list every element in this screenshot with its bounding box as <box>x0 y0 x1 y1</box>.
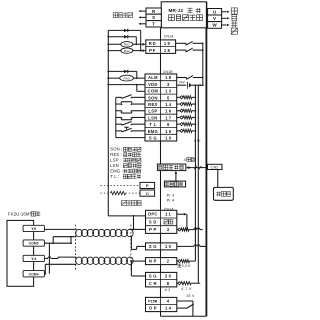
svg-text:COM: COM <box>148 89 159 94</box>
svg-text:9: 9 <box>167 122 171 127</box>
svg-text:PF: PF <box>149 48 156 53</box>
svg-text:LSP: LSP <box>148 109 157 114</box>
svg-text:20: 20 <box>165 274 172 279</box>
svg-text:RES :: RES : <box>110 152 122 157</box>
svg-text:N P: N P <box>149 259 157 264</box>
svg-text:2: 2 <box>167 259 171 264</box>
svg-text:13: 13 <box>165 89 172 94</box>
svg-text:P15R: P15R <box>148 300 158 304</box>
svg-text:18: 18 <box>164 48 171 53</box>
svg-text:# 2: # 2 <box>165 288 171 292</box>
svg-text:SON: SON <box>148 95 158 100</box>
svg-text:5: 5 <box>167 95 171 100</box>
svg-text:Y0: Y0 <box>31 226 37 231</box>
svg-text:18: 18 <box>165 75 172 80</box>
svg-text:T: T <box>152 22 155 27</box>
svg-text:RA3: RA3 <box>124 76 130 80</box>
svg-text:14: 14 <box>165 306 172 311</box>
svg-text:SON :: SON : <box>110 147 122 152</box>
svg-text:Pr 4: Pr 4 <box>167 197 176 202</box>
svg-text:RA2: RA2 <box>124 49 130 53</box>
svg-text:LSP :: LSP : <box>110 158 121 163</box>
svg-text:EMG :: EMG : <box>110 169 123 174</box>
svg-text:11: 11 <box>165 212 172 217</box>
svg-text:S G: S G <box>149 244 157 249</box>
svg-text:OPC: OPC <box>148 212 158 217</box>
svg-text:4: 4 <box>184 158 186 162</box>
svg-text:3: 3 <box>167 227 171 232</box>
svg-text:C: C <box>146 191 149 196</box>
svg-text:14: 14 <box>165 102 172 107</box>
svg-text:LSN :: LSN : <box>110 163 121 168</box>
svg-text:FX2U-16MT: FX2U-16MT <box>8 212 33 217</box>
svg-text:LSN: LSN <box>148 115 157 120</box>
svg-text:V: V <box>213 16 216 21</box>
svg-text:U: U <box>213 9 216 14</box>
svg-text:10: 10 <box>165 136 172 141</box>
svg-text:COM0: COM0 <box>29 242 39 246</box>
svg-text:O P: O P <box>149 306 157 311</box>
svg-text:RD: RD <box>149 41 157 46</box>
svg-text:16: 16 <box>165 109 172 114</box>
svg-text:17: 17 <box>165 115 172 120</box>
svg-text:CN1A: CN1A <box>164 35 174 39</box>
svg-text:4: 4 <box>167 299 171 304</box>
svg-text:2.2 K: 2.2 K <box>182 264 192 268</box>
svg-text:T L :: T L : <box>110 174 119 179</box>
svg-text:15 V: 15 V <box>186 294 195 298</box>
svg-text:T L: T L <box>149 122 156 127</box>
svg-text:S G: S G <box>149 136 157 141</box>
svg-text:P: P <box>146 183 149 188</box>
svg-text:P P: P P <box>149 227 156 232</box>
svg-text:ALM: ALM <box>148 75 158 80</box>
svg-text:3: 3 <box>167 82 171 87</box>
svg-text:RES: RES <box>148 102 157 107</box>
svg-text:CN2: CN2 <box>211 165 218 169</box>
svg-text:24V: 24V <box>179 80 186 84</box>
svg-text:EMG: EMG <box>148 129 158 134</box>
svg-text:COM4: COM4 <box>29 272 39 276</box>
svg-text:S G: S G <box>149 274 157 279</box>
svg-text:15: 15 <box>165 129 172 134</box>
svg-text:8: 8 <box>167 281 171 286</box>
svg-text:10: 10 <box>165 244 172 249</box>
svg-text:19: 19 <box>164 41 171 46</box>
svg-text:RA1: RA1 <box>124 43 130 47</box>
svg-text:Y4: Y4 <box>31 256 37 261</box>
svg-text:C R: C R <box>149 281 157 286</box>
svg-text:S: S <box>152 15 155 20</box>
svg-text:S D: S D <box>149 219 157 224</box>
svg-text:VDD: VDD <box>148 82 158 87</box>
svg-text:4.7 K: 4.7 K <box>181 287 192 291</box>
svg-text:MR-J2: MR-J2 <box>169 8 184 13</box>
